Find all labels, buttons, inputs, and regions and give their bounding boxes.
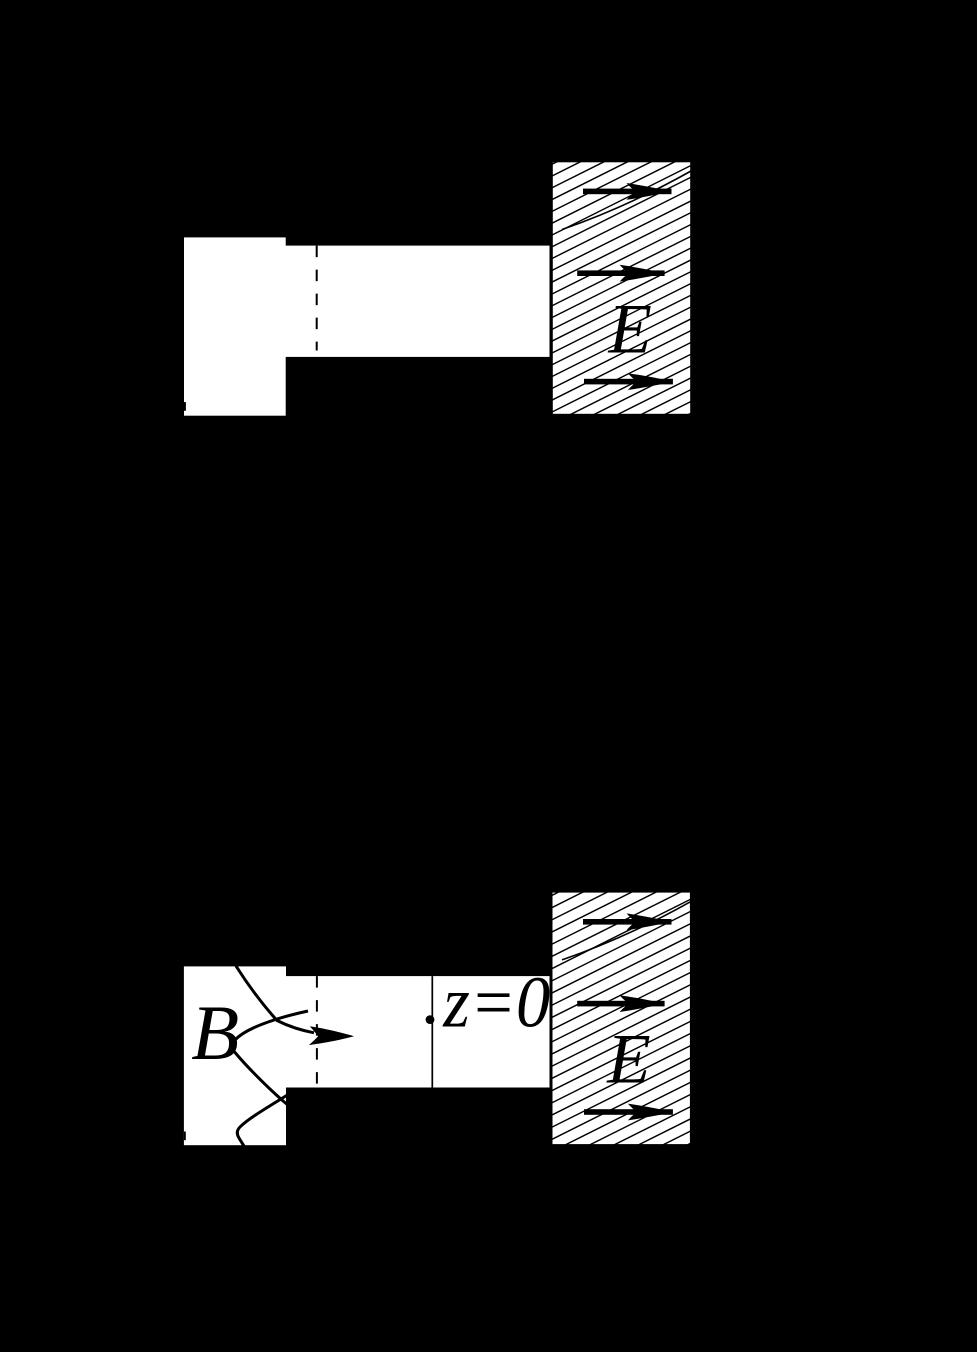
arrow E middle (b): [577, 995, 664, 1012]
hatch lines (a): [552, 161, 691, 414]
clipped letter sliver on slab edge (a): [184, 402, 186, 411]
white slab block left (b): [184, 966, 286, 1145]
arrow E top (b): [583, 913, 672, 930]
dashed boundary line (a): [316, 246, 318, 351]
svg-text:B: B: [191, 989, 239, 1076]
svg-text:E: E: [606, 1020, 650, 1098]
z=0 marker dot (b): [426, 1015, 435, 1024]
field curve (b): [562, 901, 691, 960]
arrow E top (a): [583, 183, 672, 200]
field curve (a): [562, 171, 691, 230]
svg-text:z=0: z=0: [442, 961, 550, 1042]
clipped letter sliver on slab edge (b): [184, 1132, 186, 1141]
white waveguide band (a): [285, 246, 550, 357]
z=0 marker line (b): [431, 976, 433, 1087]
B field sine curve upper (b): [232, 1011, 308, 1106]
arrow E bottom (b): [584, 1104, 673, 1121]
white slab block left (a): [184, 237, 286, 415]
hatched conductor rect E (a): [552, 161, 691, 414]
B field arrowhead (b): [309, 1026, 354, 1045]
B field sine curve lower (b): [237, 1092, 293, 1151]
hatched conductor rect E (b): [552, 892, 691, 1146]
svg-text:E: E: [608, 291, 652, 369]
B field line with arrow (b): [236, 966, 314, 1033]
arrow E middle (a): [577, 265, 664, 282]
dashed boundary line (b): [316, 976, 318, 1086]
white waveguide band (b): [285, 976, 549, 1087]
arrow E bottom (a): [584, 373, 673, 390]
hatch lines (b): [552, 892, 691, 1146]
